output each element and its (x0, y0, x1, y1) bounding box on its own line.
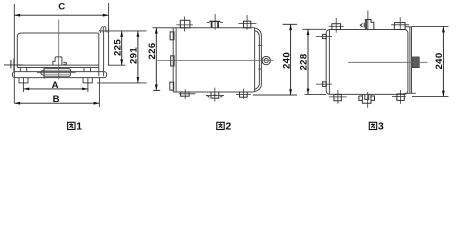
dimension B extension right (98, 78, 100, 107)
box fig2 right wall (254, 28, 256, 92)
dimension A extension lines (22, 78, 24, 92)
svg-text:228: 228 (299, 53, 310, 70)
axis centerline fig2 (157, 60, 273, 62)
dimension C line with arrows (14, 14, 108, 17)
svg-text:226: 226 (147, 43, 158, 60)
svg-text:240: 240 (281, 52, 292, 69)
left fitting B fig2 (171, 56, 174, 66)
box fig2 bottom edge (173, 91, 253, 93)
svg-text:225: 225 (112, 39, 123, 56)
top fitting 1 fig3 (329, 18, 344, 33)
tank body fig1 (17, 33, 99, 76)
bottom fitting 2 fig3 (U drain) (359, 92, 375, 108)
top fitting 3 fig2 (238, 15, 256, 30)
cooler cylinder under tank (41, 67, 71, 79)
dimension 228 top leader (302, 28, 326, 30)
dimension 240 fig2 top bar (283, 23, 297, 25)
drain fitting centerline (4, 64, 23, 66)
dimension 240 fig3 (442, 27, 445, 97)
dimension 225 (120, 31, 123, 65)
dimension 240 fig2 (289, 24, 292, 95)
dimension 226 bottom bar (153, 89, 160, 91)
dimension B line (14, 102, 99, 105)
svg-text:291: 291 (129, 47, 140, 64)
svg-text:C: C (58, 2, 65, 13)
legs between tank and pan (20, 68, 90, 72)
dimension C extension line left (13, 4, 15, 103)
axis centerline fig3 (348, 61, 428, 63)
pump hat on tank bottom (53, 57, 66, 65)
svg-text:A: A (52, 80, 59, 91)
drip pan fig1 (13, 72, 107, 78)
bottom fitting 3 fig3 (392, 90, 406, 104)
right end cover fig2 (253, 28, 262, 92)
dimension 240 fig3 top leader (411, 26, 448, 28)
bottom fitting 1 fig2 (179, 89, 196, 99)
boss circle fig2 (262, 56, 270, 64)
vertical centerline fig1 (58, 19, 60, 79)
box fig3 inner left wall (328, 30, 330, 95)
svg-text:2: 2 (226, 122, 232, 133)
left tab upper fig3 (316, 34, 332, 38)
left fitting C fig2 (170, 82, 174, 90)
bottom fitting 2 fig2 (206, 88, 224, 102)
leader 225 bottom (108, 64, 126, 66)
dimension 291 (137, 31, 140, 83)
left tab lower fig3 (316, 82, 332, 87)
tank right end cap fig1 (99, 31, 104, 76)
right plate fig3 (404, 27, 415, 94)
foot right fig1 (83, 78, 92, 83)
box fig3 outer (326, 30, 408, 95)
svg-text:B: B (53, 94, 60, 105)
breather squiggle on cap (100, 26, 108, 33)
bottom fitting 3 fig2 (236, 89, 251, 99)
drain fitting left fig1 (11, 59, 14, 72)
top fitting 2 fig2 (flanged T) (207, 14, 223, 30)
caption 图2 (217, 122, 232, 133)
dimension 226 (155, 28, 158, 91)
left fitting A fig2 (170, 32, 174, 40)
bottom fitting 1 fig3 (329, 90, 347, 104)
leader 225/291 top (104, 30, 147, 32)
top fitting 1 fig2 (176, 17, 193, 32)
leader 291 bottom (97, 82, 147, 84)
box fig2 left wall double (173, 28, 176, 92)
caption 图1 (68, 122, 83, 133)
svg-text:3: 3 (378, 122, 384, 133)
box fig2 top edge with left leader (153, 27, 255, 29)
cooler centerline (37, 72, 76, 74)
dimension 240 fig2 bottom leader (253, 94, 297, 96)
svg-text:1: 1 (76, 122, 82, 133)
svg-text:240: 240 (434, 53, 445, 70)
dimension A line (23, 88, 88, 91)
top fitting 2 fig3 (stepped cap) (360, 11, 374, 31)
shaft coupling hatch block fig3 (412, 57, 419, 68)
foot left fig1 (19, 78, 28, 83)
dimension 240 fig3 bottom leader (412, 96, 449, 98)
caption 图3 (369, 122, 384, 133)
dimension 228 bottom leader (305, 93, 327, 95)
top fitting 3 fig3 (391, 17, 409, 30)
dimension C extension line right (108, 3, 110, 66)
dimension 228 (307, 29, 310, 94)
